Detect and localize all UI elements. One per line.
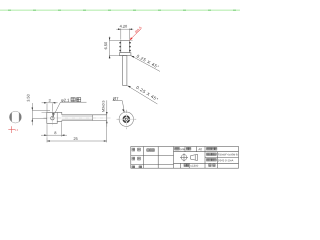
dimension 3 (hole position) [42,99,58,112]
head top edge extension [42,111,47,113]
label: shen he (checked by) [132,157,135,160]
dimension 8 [41,122,67,136]
shaft, front view [123,56,127,86]
chamfer note 0.25 X 45 upper [131,54,160,71]
title block CJK text (simulated) [132,148,238,168]
thread callout M3x0.5 [102,100,108,126]
dimension 4.20 (head width, front view) [116,25,133,40]
dimension 6.50 (head+flange height, front view) [104,37,124,59]
label: chan pin ming cheng (product name) [207,153,209,155]
bottom view circle of front part [117,110,137,129]
flange [119,53,130,56]
shaft, side view [62,115,107,121]
label: dan wei (unit) MM [175,148,177,151]
label phi2.1 through-hole [52,98,86,119]
hole centerline [51,112,53,126]
chamfer note 0.25 X 45 lower (shaft tip) [127,86,158,104]
label: bi li (scale) [209,164,211,167]
head top edge right extension [129,39,132,41]
part centerline [44,117,112,119]
label diameter 7 with leader [113,97,125,112]
label: tu zhi bian hao (drawing number) [207,148,209,151]
knurl ticks [119,42,130,51]
dimension 25 [47,122,107,142]
cross-hole circle [51,117,54,120]
radius note R0.5 (red) [130,26,142,40]
label: third row [132,166,135,168]
product number value [218,159,233,161]
red origin marker [8,126,18,133]
label: chan pin bian hao (product number) [207,159,209,161]
product name value [218,154,237,156]
dimension 3.50 [27,94,50,125]
label: shu liang (quantity) [186,148,188,151]
knurled head, front view [121,40,130,52]
label: cai zhi (material) [184,164,186,167]
sheet size A0 [198,148,201,150]
head, side view [47,112,62,123]
green horizontal guide line [0,9,240,11]
title block grid [131,147,239,169]
label: zhi tu (drawn by) [132,148,135,151]
left end view circle with flats [9,111,21,123]
third-angle projection symbol [180,153,198,161]
drafter name [147,149,149,152]
material value [190,165,198,167]
